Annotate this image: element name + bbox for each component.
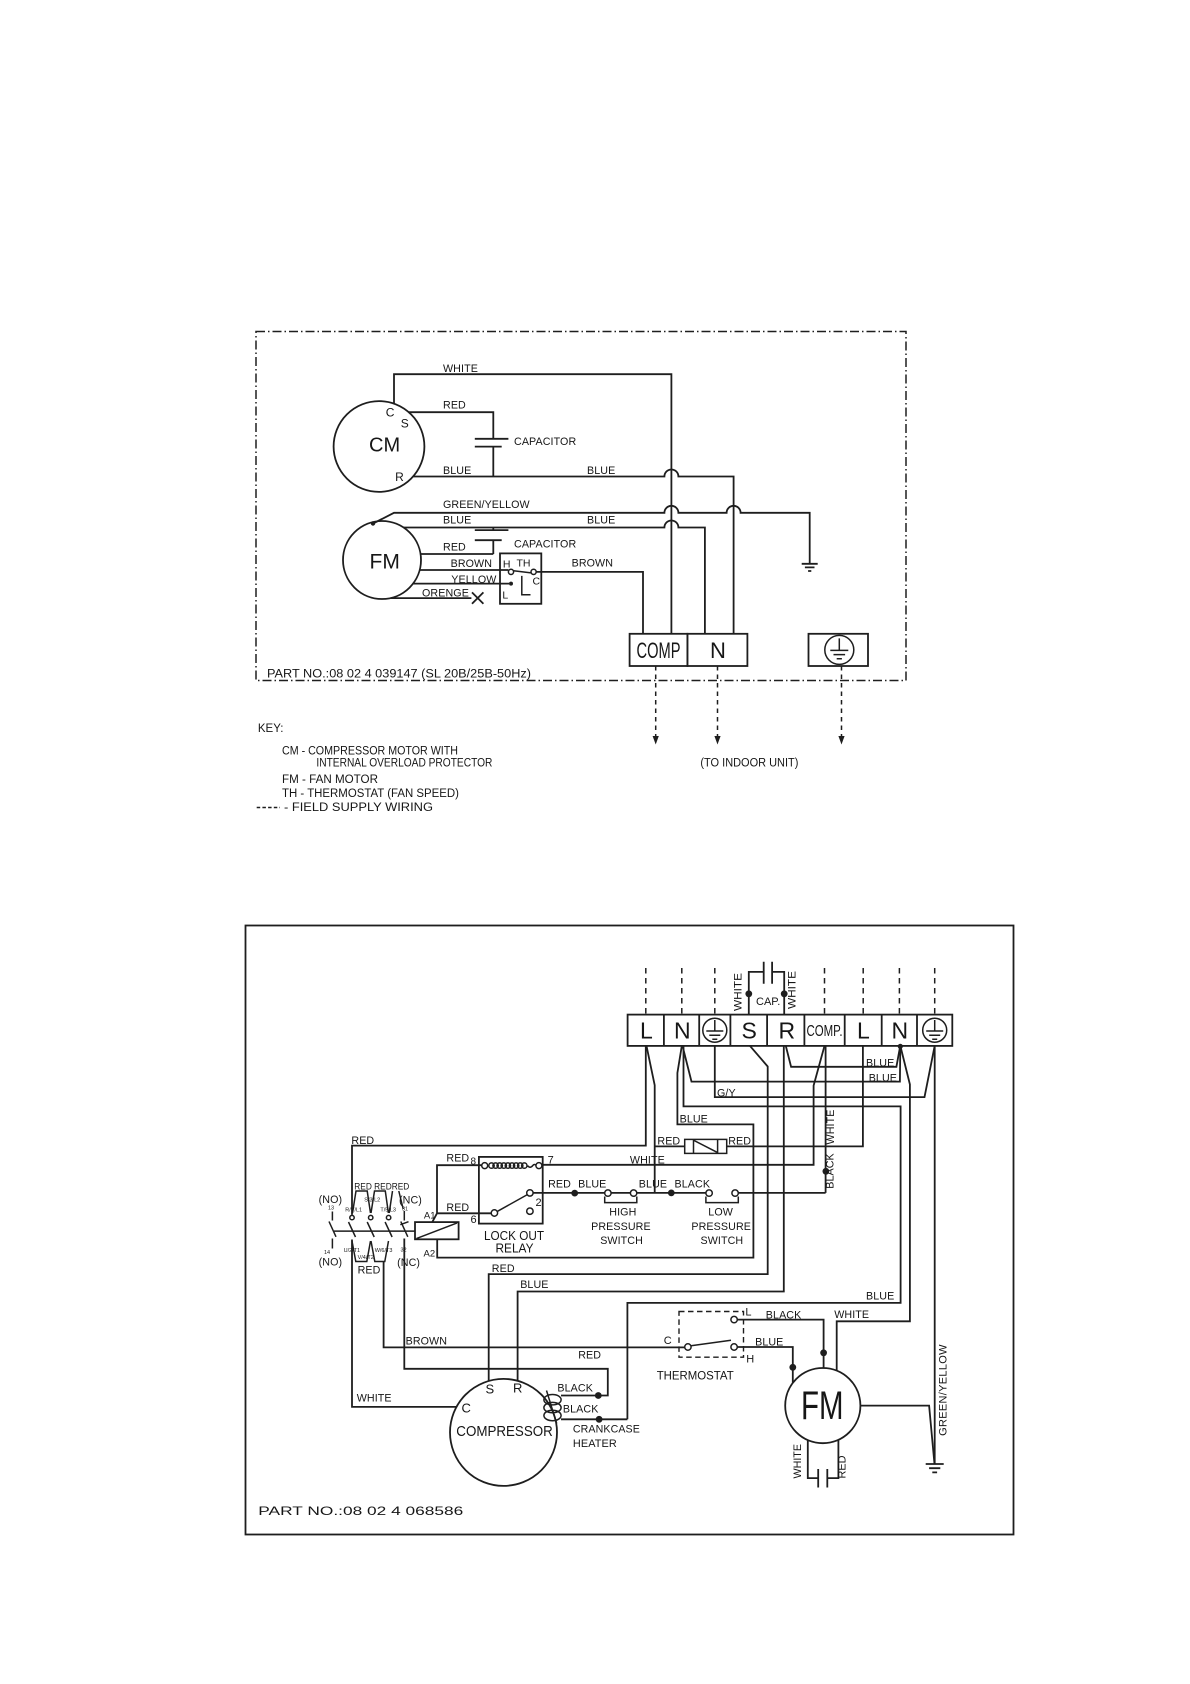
- svg-text:SWITCH: SWITCH: [701, 1235, 744, 1247]
- svg-text:R: R: [779, 1018, 796, 1044]
- svg-text:PART NO.:08 02 4 039147 (SL 20: PART NO.:08 02 4 039147 (SL 20B/25B-50Hz…: [267, 669, 531, 681]
- svg-text:H: H: [746, 1354, 754, 1366]
- svg-text:FM: FM: [801, 1384, 844, 1428]
- svg-text:L: L: [745, 1307, 751, 1319]
- svg-text:BLUE: BLUE: [639, 1179, 667, 1191]
- svg-text:BROWN: BROWN: [406, 1336, 447, 1348]
- svg-text:C: C: [533, 576, 541, 588]
- svg-text:TH - THERMOSTAT (FAN SPEED): TH - THERMOSTAT (FAN SPEED): [282, 788, 459, 800]
- svg-text:RED: RED: [443, 542, 466, 554]
- svg-text:FM - FAN MOTOR: FM - FAN MOTOR: [282, 774, 378, 786]
- svg-text:- FIELD SUPPLY WIRING: - FIELD SUPPLY WIRING: [284, 802, 433, 814]
- svg-text:TH: TH: [517, 558, 531, 570]
- svg-text:BROWN: BROWN: [451, 558, 492, 570]
- svg-text:BLACK: BLACK: [675, 1179, 711, 1191]
- svg-text:WHITE: WHITE: [787, 971, 799, 1009]
- svg-text:CAP.: CAP.: [756, 996, 780, 1008]
- svg-text:BLUE: BLUE: [578, 1179, 606, 1191]
- svg-text:R: R: [513, 1381, 522, 1396]
- svg-text:7: 7: [548, 1155, 554, 1167]
- svg-text:FM: FM: [370, 551, 400, 574]
- svg-text:HEATER: HEATER: [573, 1438, 617, 1450]
- svg-text:S: S: [742, 1018, 757, 1044]
- svg-text:ORENGE: ORENGE: [422, 588, 469, 600]
- svg-text:WHITE: WHITE: [733, 973, 745, 1011]
- svg-text:RED: RED: [351, 1135, 374, 1147]
- svg-text:L: L: [502, 590, 508, 602]
- svg-text:31: 31: [402, 1207, 408, 1213]
- svg-text:BLACK: BLACK: [766, 1310, 802, 1322]
- svg-text:L: L: [857, 1018, 870, 1044]
- svg-text:(NO): (NO): [319, 1194, 343, 1206]
- svg-text:WHITE: WHITE: [825, 1110, 837, 1145]
- svg-text:BLACK: BLACK: [563, 1404, 599, 1416]
- svg-text:PRESSURE: PRESSURE: [591, 1221, 651, 1233]
- svg-text:RED REDRED: RED REDRED: [354, 1182, 409, 1192]
- svg-text:RED: RED: [358, 1265, 381, 1277]
- svg-text:C: C: [462, 1401, 471, 1416]
- svg-text:COMP: COMP: [637, 638, 681, 663]
- svg-text:32: 32: [401, 1248, 407, 1254]
- svg-text:N: N: [892, 1018, 909, 1044]
- svg-text:C: C: [664, 1335, 672, 1347]
- svg-text:PRESSURE: PRESSURE: [691, 1221, 751, 1233]
- svg-text:WHITE: WHITE: [792, 1444, 804, 1479]
- svg-text:S: S: [401, 417, 409, 431]
- svg-text:BLUE: BLUE: [587, 465, 615, 477]
- svg-text:T/5/L3: T/5/L3: [380, 1208, 396, 1214]
- svg-text:BLUE: BLUE: [755, 1337, 783, 1349]
- svg-text:INTERNAL OVERLOAD PROTECTOR: INTERNAL OVERLOAD PROTECTOR: [316, 758, 492, 770]
- svg-text:6: 6: [471, 1214, 477, 1226]
- svg-text:S/3/L2: S/3/L2: [364, 1198, 380, 1204]
- svg-text:COMPRESSOR: COMPRESSOR: [456, 1423, 553, 1440]
- svg-text:RED: RED: [446, 1153, 469, 1165]
- svg-text:GREEN/YELLOW: GREEN/YELLOW: [938, 1344, 950, 1436]
- svg-text:YELLOW: YELLOW: [451, 574, 497, 586]
- svg-text:BLUE: BLUE: [443, 465, 471, 477]
- svg-text:BLUE: BLUE: [869, 1073, 897, 1085]
- svg-text:WHITE: WHITE: [357, 1393, 392, 1405]
- svg-text:SWITCH: SWITCH: [600, 1235, 643, 1247]
- svg-text:WHITE: WHITE: [834, 1309, 869, 1321]
- svg-text:14: 14: [324, 1250, 330, 1256]
- svg-text:BLUE: BLUE: [866, 1058, 894, 1070]
- svg-text:CAPACITOR: CAPACITOR: [514, 436, 576, 448]
- svg-text:S: S: [486, 1382, 495, 1397]
- svg-text:GREEN/YELLOW: GREEN/YELLOW: [443, 499, 531, 511]
- svg-text:HIGH: HIGH: [609, 1207, 636, 1219]
- svg-text:BROWN: BROWN: [572, 558, 613, 570]
- svg-text:CAPACITOR: CAPACITOR: [514, 539, 576, 551]
- svg-text:RED: RED: [837, 1455, 849, 1478]
- svg-text:RED: RED: [492, 1263, 515, 1275]
- svg-text:BLUE: BLUE: [680, 1114, 708, 1126]
- svg-text:WHITE: WHITE: [630, 1155, 665, 1167]
- svg-text:C: C: [386, 406, 395, 420]
- svg-text:BLUE: BLUE: [443, 515, 471, 527]
- svg-text:L: L: [640, 1018, 653, 1044]
- svg-text:U/2/T1: U/2/T1: [344, 1248, 361, 1254]
- svg-text:(NC): (NC): [399, 1195, 422, 1207]
- svg-text:RELAY: RELAY: [496, 1241, 534, 1256]
- svg-text:A1: A1: [424, 1211, 436, 1222]
- svg-text:RED: RED: [446, 1202, 469, 1214]
- svg-text:G/Y: G/Y: [717, 1088, 736, 1100]
- svg-text:13: 13: [328, 1206, 334, 1212]
- svg-text:RED: RED: [657, 1136, 680, 1148]
- svg-text:CM - COMPRESSOR MOTOR WITH: CM - COMPRESSOR MOTOR WITH: [282, 746, 458, 758]
- svg-text:WHITE: WHITE: [443, 363, 478, 375]
- svg-text:W/6/T3: W/6/T3: [375, 1248, 393, 1254]
- svg-text:THERMOSTAT: THERMOSTAT: [657, 1371, 734, 1383]
- svg-text:BLACK: BLACK: [825, 1152, 837, 1188]
- svg-text:LOW: LOW: [708, 1207, 733, 1219]
- svg-text:R: R: [395, 470, 404, 484]
- svg-text:PART NO.:08 02 4 068586: PART NO.:08 02 4 068586: [258, 1504, 463, 1518]
- svg-text:H: H: [503, 559, 511, 571]
- svg-text:RED: RED: [548, 1179, 571, 1191]
- svg-text:BLUE: BLUE: [587, 515, 615, 527]
- svg-text:A2: A2: [424, 1249, 436, 1260]
- svg-text:BLACK: BLACK: [557, 1383, 593, 1395]
- svg-text:COMP.: COMP.: [807, 1023, 843, 1040]
- svg-text:V/4/T2: V/4/T2: [358, 1255, 374, 1261]
- svg-text:BLUE: BLUE: [866, 1291, 894, 1303]
- svg-text:CRANKCASE: CRANKCASE: [573, 1424, 640, 1436]
- svg-text:N: N: [710, 638, 726, 663]
- svg-text:RED: RED: [728, 1136, 751, 1148]
- svg-text:(NC): (NC): [397, 1257, 420, 1269]
- svg-text:N: N: [674, 1018, 691, 1044]
- svg-text:(NO): (NO): [319, 1257, 343, 1269]
- svg-text:8: 8: [471, 1157, 477, 1168]
- svg-text:BLUE: BLUE: [520, 1279, 548, 1291]
- svg-text:(TO INDOOR UNIT): (TO INDOOR UNIT): [700, 758, 798, 770]
- svg-text:KEY:: KEY:: [258, 723, 284, 735]
- svg-text:CM: CM: [369, 435, 400, 457]
- svg-text:RED: RED: [443, 400, 466, 412]
- svg-text:RED: RED: [578, 1350, 601, 1362]
- svg-text:R/V/L1: R/V/L1: [345, 1208, 362, 1214]
- svg-text:2: 2: [536, 1197, 542, 1209]
